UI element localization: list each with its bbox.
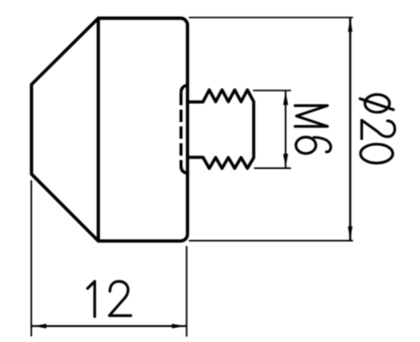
12 arrow left	[33, 324, 47, 329]
cone-cylinder junction line	[97, 18, 100, 241]
knob body outline	[32, 18, 188, 241]
12 left extension line	[30, 180, 32, 336]
hidden thread line: top hook	[181, 85, 187, 93]
diameter symbol	[365, 95, 390, 113]
dia20 bottom extension line	[189, 240, 353, 242]
dia20 dimension line	[349, 18, 351, 241]
digit 0	[361, 144, 393, 163]
12 right extension line	[186, 246, 188, 337]
dia20 top extension line	[189, 17, 353, 19]
digit 2	[109, 281, 131, 315]
M6 bottom extension line	[254, 167, 291, 169]
M6 arrow up	[283, 91, 288, 105]
label dia20 (rotated)	[360, 95, 395, 164]
M6 dimension line	[285, 91, 287, 168]
dia20 arrow up	[348, 18, 353, 32]
hidden thread line: bottom hook	[181, 166, 187, 173]
M6 top extension line	[253, 90, 291, 92]
letter M	[295, 106, 328, 127]
12 dimension line	[32, 325, 186, 327]
label M6 (rotated)	[295, 106, 331, 154]
digit 2	[362, 120, 395, 139]
digit 1	[88, 281, 95, 316]
label 12	[88, 281, 131, 316]
hidden thread line: dashed	[180, 93, 183, 166]
12 arrow right	[172, 324, 186, 329]
M6 arrow down	[283, 154, 288, 168]
digit 6	[296, 137, 316, 153]
threaded stud M6 profile	[188, 90, 254, 168]
dia20 arrow down	[348, 226, 353, 240]
